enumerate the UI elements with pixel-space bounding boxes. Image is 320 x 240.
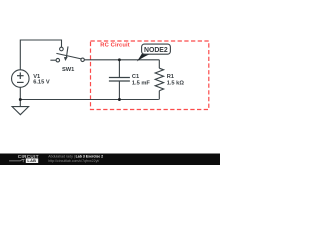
junction dot at ground (19, 98, 22, 101)
wire bottom rail (20, 99, 159, 101)
logo lead line (9, 160, 25, 163)
svg-text:R1: R1 (167, 74, 174, 80)
resistor R1 (155, 60, 163, 100)
svg-text:LAB: LAB (27, 158, 36, 163)
wire top rail from switch to R1 (84, 59, 159, 61)
svg-text:1.5 kΩ: 1.5 kΩ (167, 80, 185, 86)
junction dot bottom of C1 (118, 98, 121, 101)
wire from V1 top to switch (20, 40, 61, 70)
svg-text:Abdulahad rady | Lab 3 Exercis: Abdulahad rady | Lab 3 Exercise 2 (48, 154, 103, 158)
node label NODE2 tail (137, 54, 151, 62)
voltage source V1 (12, 70, 30, 100)
svg-text:http://circuitlab.com/c/7qfrxx: http://circuitlab.com/c/7qfrxx22yt/ (48, 159, 99, 163)
logo LAB box (26, 158, 38, 163)
svg-text:NODE2: NODE2 (144, 47, 168, 54)
junction dot top of C1 (118, 58, 121, 61)
footer bar (0, 154, 220, 166)
svg-text:6.15 V: 6.15 V (33, 80, 50, 86)
ground (12, 100, 29, 115)
RC Circuit box (91, 41, 209, 110)
svg-text:1.5 mF: 1.5 mF (132, 80, 151, 86)
node label NODE2 bubble (142, 44, 171, 54)
svg-text:C1: C1 (132, 74, 139, 80)
capacitor C1 (109, 60, 130, 100)
svg-text:RC Circuit: RC Circuit (100, 42, 130, 48)
svg-text:SW1: SW1 (62, 67, 74, 73)
switch SW1 (50, 46, 84, 62)
